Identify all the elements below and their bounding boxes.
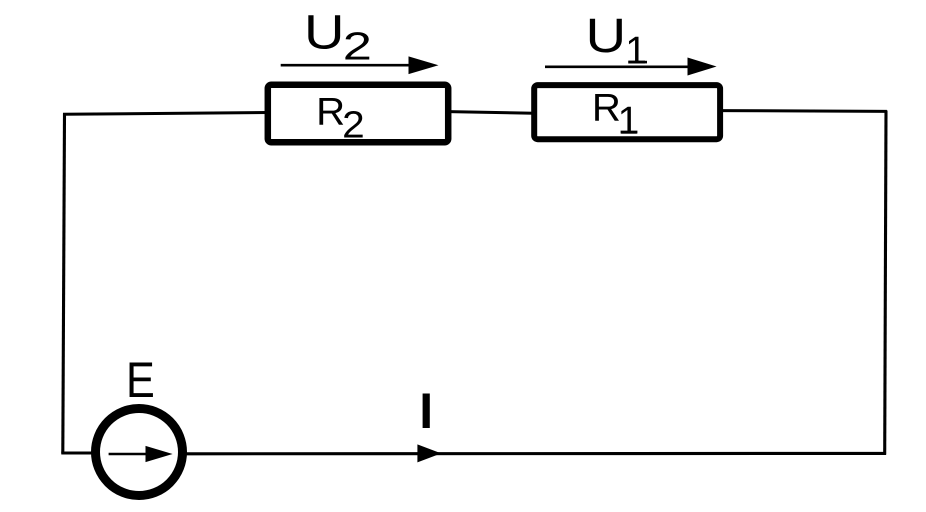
- svg-text:U: U: [304, 7, 345, 60]
- svg-text:E: E: [126, 352, 155, 408]
- wire left vertical: [63, 114, 65, 454]
- label E: [126, 352, 155, 408]
- svg-text:1: 1: [625, 29, 647, 72]
- source arrow: [109, 446, 173, 462]
- resistor R2: [268, 85, 448, 142]
- label U2: [304, 7, 372, 69]
- current arrowhead I: [417, 444, 441, 462]
- wire top-right horizontal: [721, 109, 887, 113]
- wire bottom horizontal: [184, 452, 886, 455]
- svg-text:R: R: [316, 91, 345, 134]
- voltage arrow U2: [281, 56, 439, 74]
- svg-text:1: 1: [618, 100, 640, 143]
- label I: [419, 383, 433, 439]
- svg-text:2: 2: [342, 104, 365, 146]
- wire between R2 and R1: [449, 112, 534, 114]
- svg-text:I: I: [419, 383, 433, 439]
- label R1: [592, 87, 639, 143]
- voltage arrow U1: [545, 58, 717, 76]
- wire right vertical: [885, 111, 886, 455]
- svg-text:U: U: [586, 10, 627, 63]
- label U1: [586, 10, 648, 72]
- svg-text:R: R: [592, 87, 621, 130]
- svg-text:2: 2: [343, 26, 372, 69]
- wire bottom left stub: [61, 451, 95, 454]
- voltage source E: [96, 409, 183, 496]
- resistor R1: [534, 85, 720, 139]
- wire top-left horizontal: [63, 113, 268, 115]
- label R2: [316, 91, 365, 147]
